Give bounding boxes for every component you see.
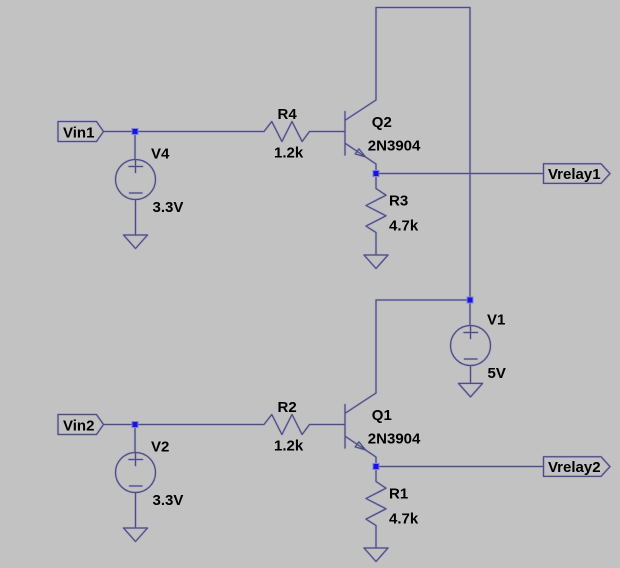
svg-text:3.3V: 3.3V [153,199,184,216]
svg-text:3.3V: 3.3V [153,492,184,509]
svg-text:2N3904: 2N3904 [368,138,421,155]
svg-text:1.2k: 1.2k [274,145,304,162]
svg-text:Q1: Q1 [372,407,392,424]
svg-text:1.2k: 1.2k [274,438,304,455]
svg-text:Vin2: Vin2 [63,418,94,435]
svg-text:R1: R1 [389,486,408,503]
svg-text:V2: V2 [151,439,169,456]
svg-text:V1: V1 [487,312,505,329]
svg-text:2N3904: 2N3904 [368,431,421,448]
svg-text:5V: 5V [488,365,506,382]
svg-text:Vrelay2: Vrelay2 [548,459,601,476]
svg-text:Vin1: Vin1 [63,125,94,142]
svg-text:Q2: Q2 [372,114,392,131]
svg-text:Vrelay1: Vrelay1 [548,166,601,183]
svg-text:V4: V4 [151,146,170,163]
svg-text:R3: R3 [389,193,408,210]
svg-text:R4: R4 [278,106,298,123]
svg-text:4.7k: 4.7k [389,511,419,528]
svg-text:R2: R2 [278,399,297,416]
svg-text:4.7k: 4.7k [389,218,419,235]
